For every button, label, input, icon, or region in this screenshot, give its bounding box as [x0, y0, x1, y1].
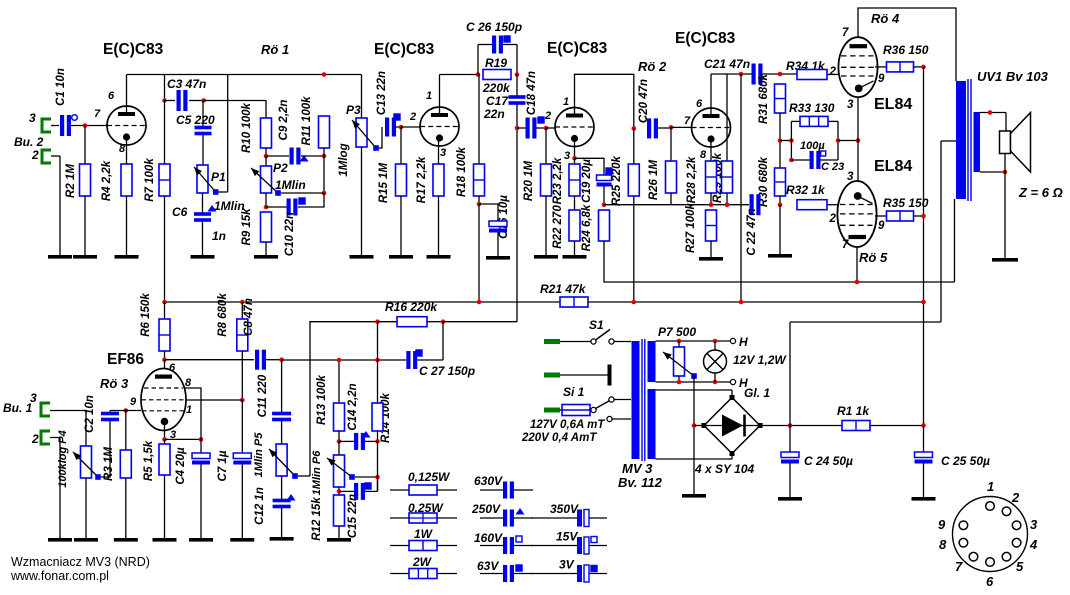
wire grid3 to tube [546, 127, 555, 129]
svg-text:UV1 Bv 103: UV1 Bv 103 [977, 69, 1049, 84]
svg-text:R6 150k: R6 150k [140, 293, 152, 337]
wire C10 left lead [266, 206, 287, 208]
wire earth terminal [560, 374, 609, 376]
resistor R30 [775, 168, 786, 196]
wire lamp bottom lead [714, 373, 716, 382]
capacitor C9 [290, 148, 301, 165]
svg-text:220V 0,4 AmT: 220V 0,4 AmT [521, 432, 597, 444]
svg-text:R32 1k: R32 1k [786, 183, 826, 197]
capacitor C23 [810, 151, 821, 169]
wire P4 ground [85, 478, 87, 538]
svg-text:4: 4 [1029, 537, 1038, 552]
svg-text:C 23: C 23 [821, 161, 844, 173]
node R14 tap [375, 358, 380, 363]
capacitor C2 [101, 412, 119, 422]
svg-text:3: 3 [847, 99, 854, 111]
svg-text:C18 47n: C18 47n [526, 71, 538, 115]
svg-text:63V: 63V [477, 559, 499, 573]
node box left bottom [789, 158, 794, 163]
wire C15 right lead [365, 490, 378, 492]
capacitor C7 [233, 453, 251, 465]
svg-text:P2: P2 [273, 161, 288, 175]
resistor R10 [261, 118, 272, 148]
svg-text:R18 100k: R18 100k [456, 146, 468, 196]
capacitor C4 [192, 453, 210, 465]
transformer MV3 HV winding [648, 389, 656, 459]
svg-text:Rö 3: Rö 3 [100, 376, 129, 391]
wire C26 right riser [516, 45, 518, 75]
svg-text:R33 130: R33 130 [789, 101, 835, 115]
potentiometer P2 wiper [251, 168, 281, 196]
svg-text:12V 1,2W: 12V 1,2W [733, 353, 787, 367]
legend resistor 0.125W [409, 485, 437, 495]
svg-text:R22 270: R22 270 [552, 205, 564, 249]
svg-text:Rö 2: Rö 2 [638, 59, 667, 74]
terminal H bottom [730, 379, 735, 384]
svg-text:R23 2,2k: R23 2,2k [552, 157, 564, 204]
wire P6 wiper to node [355, 476, 378, 478]
wire B+ raw riser down [789, 322, 791, 426]
wire C27 right lead [418, 359, 444, 361]
capacitor C21 [752, 64, 763, 85]
svg-text:P3: P3 [346, 103, 361, 117]
wire P6 top lead [338, 441, 340, 455]
capacitor C5 [195, 126, 212, 136]
svg-text:1Mlin: 1Mlin [275, 178, 306, 192]
capacitor C20 [647, 118, 658, 138]
svg-text:Z = 6 Ω: Z = 6 Ω [1018, 185, 1063, 200]
svg-text:Rö 4: Rö 4 [871, 11, 900, 26]
wire HV top [656, 389, 733, 391]
node tone B [322, 154, 327, 159]
speaker [1000, 113, 1031, 173]
legend wire 250 r [514, 517, 533, 519]
wire P1 wiper to riser [218, 191, 228, 193]
wire HV to bridge top [731, 390, 733, 397]
transformer MV3 heater winding [648, 341, 656, 382]
svg-text:E(C)C83: E(C)C83 [374, 41, 435, 58]
wire bus to R8 [241, 302, 243, 319]
node B+ filtered [921, 423, 926, 428]
capacitor C15 [354, 483, 365, 500]
wire anode V2a [575, 74, 634, 128]
wire node B down [323, 156, 325, 193]
wire R18 riser [478, 75, 480, 165]
svg-text:C 25 50µ: C 25 50µ [941, 454, 990, 468]
svg-text:R11 100k: R11 100k [301, 96, 313, 146]
resistor R20 [541, 164, 552, 196]
svg-text:R25 220k: R25 220k [611, 155, 623, 205]
svg-text:1: 1 [987, 479, 994, 494]
legend capacitor 630V [503, 482, 514, 499]
svg-text:C9 2,2n: C9 2,2n [278, 100, 290, 141]
resistor R23 [569, 164, 580, 196]
wire g2 to C7 [241, 400, 243, 455]
mark C15 square [365, 483, 371, 489]
mark C19 square [606, 168, 612, 174]
node C20 left [632, 126, 637, 131]
resistor R1 [842, 421, 870, 431]
wire R6 to anode node [164, 351, 166, 360]
svg-text:6: 6 [986, 574, 994, 589]
ground under C6 [191, 255, 215, 259]
resistor R27 [706, 210, 717, 241]
svg-text:350V: 350V [550, 502, 579, 516]
ground speaker [992, 258, 1018, 262]
wire P1 to C6 [202, 193, 204, 213]
node grid1 [83, 123, 88, 128]
pentode EL84 lower [837, 181, 876, 247]
terminal H top [730, 338, 735, 343]
potentiometer P6 wiper [327, 458, 355, 480]
svg-text:C 26 150p: C 26 150p [466, 20, 522, 34]
transformer UV1 primary winding [956, 81, 966, 199]
svg-text:1: 1 [563, 96, 569, 108]
resistor R26 [666, 161, 677, 193]
node tone A [264, 154, 269, 159]
wire node to C15 lead [377, 477, 379, 491]
svg-text:R27 100k: R27 100k [685, 202, 697, 252]
svg-text:P1: P1 [211, 170, 226, 184]
mark C26 square [504, 36, 510, 42]
wire anode V1a to top rail [126, 75, 128, 113]
wire C5 top lead [202, 101, 204, 127]
wire lamp top lead [714, 341, 716, 350]
wire grid2 to tube [401, 126, 420, 128]
node P6 top [337, 439, 342, 444]
legend capacitor 160V [503, 537, 514, 554]
wire C8 right lead [266, 359, 282, 361]
wire R26 bottom [670, 193, 672, 205]
svg-text:8: 8 [185, 377, 192, 389]
node C18 left [515, 126, 520, 131]
svg-text:7: 7 [94, 108, 101, 120]
node bus R18 [477, 300, 482, 305]
svg-text:C10 22n: C10 22n [284, 212, 296, 256]
node C3 left [162, 98, 167, 103]
wire upper screen [875, 66, 887, 68]
wire P7 top lead [678, 341, 680, 347]
svg-text:C20 47n: C20 47n [638, 79, 650, 123]
svg-text:R17 2,2k: R17 2,2k [416, 156, 428, 203]
svg-text:C6: C6 [172, 205, 188, 219]
svg-text:100klog P4: 100klog P4 [57, 430, 69, 487]
pentode EF86 tube [141, 369, 186, 431]
connector Bu.2 pin 3 [42, 119, 51, 132]
svg-text:2: 2 [1011, 490, 1020, 505]
svg-text:9: 9 [878, 73, 885, 85]
wire grid node to R15 [400, 127, 402, 164]
svg-text:100µ: 100µ [800, 140, 825, 152]
svg-text:Bu. 2: Bu. 2 [14, 135, 44, 149]
svg-text:7: 7 [955, 559, 963, 574]
wire cathode to R5 [164, 439, 166, 444]
node C8 right [279, 357, 284, 362]
node C14 right [375, 439, 380, 444]
ground under R5 [153, 538, 177, 542]
ground under R15 [389, 255, 413, 259]
legend wire 15V r [589, 545, 607, 547]
svg-text:C17: C17 [486, 94, 509, 108]
node R24 top [602, 202, 607, 207]
socket pin 3 [1012, 521, 1021, 530]
wire heater top [656, 340, 732, 342]
wire R4 to ground [126, 196, 128, 255]
svg-text:C5 220: C5 220 [176, 113, 215, 127]
svg-text:Gl. 1: Gl. 1 [744, 386, 770, 400]
svg-text:R16 220k: R16 220k [385, 300, 438, 314]
potentiometer P6 [334, 455, 345, 487]
earth bar [608, 365, 612, 386]
resistor R9 [261, 212, 272, 242]
svg-text:1Mlin P5: 1Mlin P5 [253, 432, 265, 478]
legend wire r1 [390, 489, 457, 491]
wire C26 left riser [477, 45, 479, 75]
wire C19 bottom [603, 187, 605, 205]
svg-text:E(C)C83: E(C)C83 [547, 40, 608, 57]
legend capacitor 250V [503, 510, 514, 527]
svg-text:R15 1M: R15 1M [378, 162, 390, 203]
wire C3 to R10 [204, 101, 266, 119]
capacitor C1 [60, 115, 71, 136]
potentiometer P7 [674, 347, 685, 376]
legend mark 63V [516, 565, 522, 571]
svg-text:www.fonar.com.pl: www.fonar.com.pl [10, 569, 109, 583]
node cathode bus [856, 138, 861, 143]
ground under C16 [486, 256, 510, 260]
svg-text:C21 47n: C21 47n [704, 57, 750, 71]
wire P5 to C12 [281, 476, 283, 500]
svg-text:R26 1M: R26 1M [648, 159, 660, 200]
wire P3 to ground [361, 147, 363, 255]
svg-text:127V 0,6A mT: 127V 0,6A mT [530, 419, 605, 431]
wire C14 left lead [339, 440, 355, 442]
mark C13 square [394, 114, 400, 120]
wire tap2 to transformer [612, 418, 631, 420]
wire R16 node to x517 [443, 321, 517, 323]
wire bus to R6 [164, 302, 166, 319]
wire stub to box [780, 140, 791, 142]
wire R13 riser [338, 360, 340, 403]
wire R22 ground [574, 241, 576, 255]
wire to R2 [84, 126, 86, 165]
svg-text:R24 6,8k: R24 6,8k [581, 204, 593, 251]
resistor R8 [237, 319, 248, 351]
wire g2 wire [186, 399, 242, 401]
potentiometer P3 [356, 118, 367, 147]
node bus R6 [162, 300, 167, 305]
wire R29 bottom [726, 193, 728, 205]
wire C23 left lead [791, 159, 810, 161]
potentiometer P7 wiper [663, 352, 697, 379]
capacitor C26 [492, 36, 503, 54]
capacitor C17 [509, 95, 526, 105]
legend mark open sq 15V [591, 537, 597, 543]
svg-text:R9 15k: R9 15k [241, 208, 253, 246]
mark C6 triangle [208, 205, 217, 212]
wire C12 ground [281, 508, 283, 538]
legend wire r2 [390, 517, 457, 519]
wire C8 node to C11 [281, 360, 283, 413]
resistor R3 [120, 450, 131, 478]
node bus x741 [739, 300, 744, 305]
transformer UV1 core [968, 79, 971, 201]
mark C9 triangle [300, 155, 309, 162]
resistor R12 [334, 495, 345, 526]
socket pin 1 [986, 502, 995, 511]
node C4 top [199, 437, 204, 442]
svg-text:C14 2,2n: C14 2,2n [347, 383, 359, 430]
svg-text:8: 8 [939, 537, 947, 552]
svg-text:C3 47n: C3 47n [167, 77, 206, 91]
wire cathode V1b [438, 140, 440, 164]
resistor R14 [372, 403, 383, 431]
wire C17 down long [516, 105, 518, 322]
svg-text:R1 1k: R1 1k [837, 404, 870, 418]
resistor R2 [80, 164, 91, 196]
node grid3 [544, 126, 549, 131]
wire R9 to ground [265, 242, 267, 255]
voltage select lever [596, 401, 610, 409]
mark mic circle [72, 115, 78, 121]
wire R34 to grid EL84 top [827, 74, 839, 76]
resistor R32 [797, 200, 827, 210]
potentiometer P5 [276, 444, 287, 476]
resistor R4 [121, 164, 132, 196]
wire branch to C3 node [164, 75, 166, 101]
wire R33 right lead [828, 120, 838, 122]
wire pin8 jog [184, 388, 201, 439]
node C16 [477, 202, 482, 207]
svg-text:EL84: EL84 [874, 96, 912, 113]
svg-text:2: 2 [409, 111, 416, 123]
wire grid to R3 [125, 411, 127, 451]
node hum left [778, 138, 783, 143]
svg-text:8: 8 [700, 149, 707, 161]
wire C6 to ground [202, 222, 204, 256]
svg-text:15V: 15V [556, 530, 578, 544]
capacitor C11 [272, 412, 291, 422]
resistor R16 [397, 317, 427, 327]
legend mark 250V [516, 508, 525, 515]
mark C27 square [416, 350, 422, 356]
wire phase splitter lower rail [604, 204, 749, 206]
svg-text:R8 680k: R8 680k [217, 293, 229, 337]
svg-text:C19 20µ: C19 20µ [581, 159, 593, 203]
svg-text:Rö 5: Rö 5 [859, 250, 888, 265]
ground under R30 [768, 254, 792, 258]
capacitor C6 [194, 212, 211, 222]
wire anode rail to C21 [711, 73, 752, 75]
wire cathode EF86 [164, 425, 166, 439]
resistor R28 [706, 161, 717, 193]
svg-text:1Mlog: 1Mlog [338, 143, 350, 176]
wire P5 wiper stub [298, 475, 310, 477]
svg-text:3V: 3V [559, 558, 575, 572]
wire C3 left lead [165, 100, 176, 102]
node g2 [240, 398, 245, 403]
legend resistor 2W [409, 569, 437, 579]
wire R3 ground [125, 478, 127, 538]
node lamp top [713, 339, 718, 344]
node R13 top [337, 358, 342, 363]
wire C13 to grid node [395, 126, 401, 128]
ground under R2 [73, 255, 97, 259]
resistor R22 [569, 210, 580, 241]
wire grid4 to tube [671, 126, 692, 128]
resistor R5 [159, 444, 170, 475]
wire R1 to C25 node [870, 425, 924, 427]
wire cathode V2b [710, 141, 712, 161]
svg-text:22n: 22n [483, 107, 505, 121]
wire R10 to node [265, 148, 267, 156]
transformer UV1 secondary winding [974, 112, 981, 172]
resistor R31 [775, 84, 786, 113]
potentiometer P1 [197, 165, 208, 193]
svg-text:5: 5 [1016, 559, 1024, 574]
svg-text:R3 1M: R3 1M [103, 447, 115, 481]
legend wire 350V r [589, 517, 607, 519]
svg-text:250V: 250V [471, 502, 501, 516]
legend resistor 1W [409, 541, 437, 551]
wire P2 to node C [265, 193, 267, 207]
wire C9 to R11 node [301, 155, 324, 157]
svg-text:630V: 630V [474, 474, 503, 488]
capacitor C16 [489, 221, 507, 233]
ground under C4 [189, 538, 213, 542]
wire grid4 to R26 [670, 127, 672, 161]
svg-text:1n: 1n [212, 229, 226, 243]
ground under C12 [270, 537, 294, 541]
svg-text:C1 10n: C1 10n [55, 68, 67, 106]
wire C20 right lead [658, 127, 671, 129]
svg-text:C13 22n: C13 22n [376, 71, 388, 115]
node lower anode [855, 280, 860, 285]
ground under R3 [114, 538, 138, 542]
node C3 right [201, 98, 206, 103]
mark C12 triangle [287, 494, 296, 501]
wire secondary top [980, 112, 1006, 114]
ground under P3 [350, 255, 374, 259]
wire R25 feed [633, 128, 635, 164]
svg-text:R7 100k: R7 100k [144, 158, 156, 202]
wire R12 ground [338, 526, 340, 538]
wire anode lead [164, 360, 166, 372]
svg-text:3: 3 [29, 111, 36, 125]
potentiometer P5 wiper [269, 449, 298, 479]
svg-text:Wzmacniacz MV3 (NRD): Wzmacniacz MV3 (NRD) [11, 555, 150, 569]
tap 127V contact [607, 416, 612, 421]
wire anode line [165, 359, 255, 361]
wire grid3 to R20 [545, 128, 547, 164]
node cathode EF86 [162, 437, 167, 442]
svg-text:2: 2 [31, 432, 39, 446]
wire C18 right lead [536, 127, 546, 129]
wire B+ bus left [165, 301, 561, 303]
svg-text:Bv. 112: Bv. 112 [618, 475, 663, 490]
node B+ raw [788, 423, 793, 428]
tap 220V contact [609, 397, 614, 402]
svg-text:C12 1n: C12 1n [254, 487, 266, 525]
terminal mains E [544, 373, 560, 378]
wire HV bottom [656, 458, 733, 460]
ground under R22 [563, 255, 587, 259]
wire top rail y74 [127, 74, 362, 76]
svg-text:R5 1,5k: R5 1,5k [143, 440, 155, 481]
ground under Bu.1 [48, 538, 72, 542]
potentiometer P4 [81, 446, 92, 478]
wire Bu.2-2 stub [51, 155, 60, 157]
